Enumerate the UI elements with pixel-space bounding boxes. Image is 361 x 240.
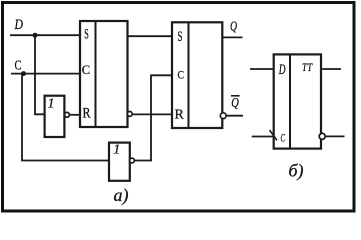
svg-text:R: R bbox=[83, 106, 91, 122]
svg-text:C: C bbox=[15, 59, 22, 74]
svg-text:D: D bbox=[14, 17, 24, 33]
svg-text:1: 1 bbox=[48, 97, 55, 112]
svg-text:D: D bbox=[278, 62, 286, 78]
svg-text:R: R bbox=[175, 108, 185, 123]
svg-text:S: S bbox=[84, 27, 89, 43]
svg-text:1: 1 bbox=[113, 143, 120, 158]
svg-text:Q: Q bbox=[231, 95, 239, 110]
svg-text:S: S bbox=[178, 29, 183, 45]
svg-text:C: C bbox=[82, 63, 90, 77]
svg-text:C: C bbox=[178, 67, 185, 81]
svg-text:а): а) bbox=[114, 185, 129, 206]
svg-text:б): б) bbox=[289, 161, 304, 182]
svg-text:Q: Q bbox=[230, 19, 237, 34]
svg-text:C: C bbox=[281, 131, 286, 145]
svg-text:TT: TT bbox=[302, 60, 313, 74]
